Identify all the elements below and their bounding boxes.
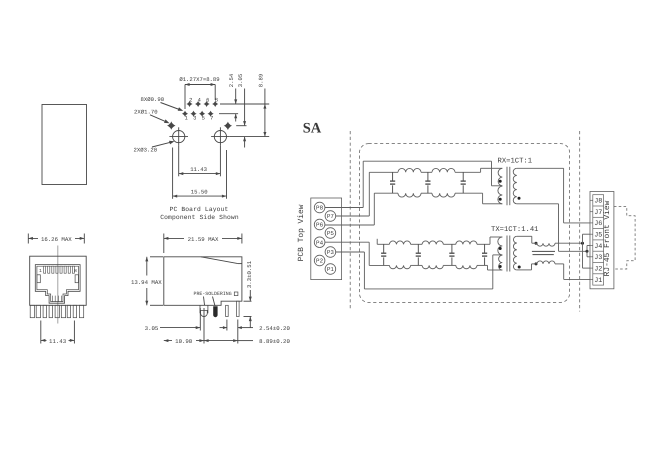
latch window left [37,275,40,283]
svg-text:2.54: 2.54 [228,73,235,87]
TX choke bottom rail [369,264,389,266]
capacitor C3 [462,172,464,181]
svg-text:P2: P2 [316,258,324,265]
choke L3 winding B [389,265,410,268]
RJ-45 pin box [590,192,614,289]
pad hole 2 (0.90mm) [186,101,192,107]
extension line mid hole [236,125,246,127]
svg-text:P1: P1 [327,266,335,273]
svg-text:Component Side Shown: Component Side Shown [160,214,239,221]
svg-text:3.3±0.51: 3.3±0.51 [246,260,253,288]
PCB top view pin box [311,198,342,280]
svg-text:2XØ1.70: 2XØ1.70 [134,108,158,115]
wire T2 secondary top through choke L6 to junction J5/J2 [517,235,532,237]
dashed boundary line left [349,131,351,310]
dim 15.50 [172,148,174,199]
svg-text:8XØ0.90: 8XØ0.90 [141,96,165,103]
pin P3 [325,247,336,258]
svg-text:7: 7 [210,116,213,122]
RX choke bottom rail [374,192,398,194]
svg-text:6: 6 [206,98,209,104]
dim 16.26 MAX [27,234,29,244]
blank outline rectangle (top-left view) [42,105,87,185]
capacitor C7 [484,244,486,253]
socket opening inner [37,266,79,301]
svg-text:J1: J1 [594,277,602,285]
plastic peg [200,305,208,316]
T1 core [506,167,508,205]
svg-text:Ø1.27X7=8.89: Ø1.27X7=8.89 [179,76,219,83]
latch window right [75,275,78,283]
svg-text:3: 3 [193,116,196,122]
svg-text:P6: P6 [316,222,324,229]
extension line top pad row [220,103,269,105]
choke L6 [537,243,555,246]
svg-text:4: 4 [198,98,201,104]
capacitor C6 [451,244,453,253]
dim 10.90 [203,308,205,344]
choke L3 winding A [389,241,410,244]
capacitor C8 plates [532,250,555,252]
contact pin 1 [226,305,229,316]
svg-text:J2: J2 [594,265,602,273]
svg-text:J6: J6 [594,220,602,228]
dashed module outline (rounded) [360,144,570,303]
choke L4 winding B [422,265,443,268]
svg-text:PRE-SOLDERING: PRE-SOLDERING [194,291,232,297]
capacitor C4 [383,244,385,253]
T2 primary phase dot bottom [499,265,502,268]
transformer T2 TX secondary [513,236,516,270]
choke L7 [537,261,555,264]
mounting hole left (3.20mm) [173,131,185,143]
svg-text:PCB Top View: PCB Top View [297,204,306,261]
svg-text:P4: P4 [316,239,324,246]
pin P5 [325,228,336,239]
RX choke top rail [369,171,398,173]
svg-text:13.94 MAX: 13.94 MAX [131,279,162,286]
junction node J4/J3 [586,250,589,253]
dim 11.43 [178,146,180,176]
svg-text:P7: P7 [327,213,335,220]
wire T1 secondary bottom to J4/J3 junction [517,203,559,205]
front view centerline [57,246,59,324]
svg-text:8.89: 8.89 [257,74,264,87]
svg-text:RX=1CT:1: RX=1CT:1 [498,157,533,165]
small pin square [234,292,238,296]
pin P1 [325,264,336,275]
svg-text:P8: P8 [316,205,324,212]
wire P7 to RX choke top rail [336,215,370,217]
svg-text:J3: J3 [594,254,602,262]
pin P7 [325,211,336,222]
dim 21.59 MAX [163,234,165,254]
svg-text:PC Board Layout: PC Board Layout [170,206,229,213]
pad hole 5 (0.90mm) [199,111,205,117]
dim 3.3 +/-0.51 [244,300,252,302]
pin P8 [314,202,325,213]
svg-text:21.59 MAX: 21.59 MAX [188,236,219,243]
choke L2 winding B [432,193,455,197]
svg-text:8.89±0.20: 8.89±0.20 [259,338,290,345]
wire T2 secondary bottom through choke L7 to J1 [517,269,532,271]
T2 primary phase dot top [499,247,502,250]
svg-text:5: 5 [202,116,205,122]
capacitor C1 [392,172,394,181]
pin P4 [314,237,325,248]
svg-text:1: 1 [39,269,42,274]
transformer T1 RX secondary [513,168,517,204]
top chamfer line [201,257,238,264]
extension line big hole [230,136,270,138]
transformer T1 RX primary [498,168,502,186]
mounting hole left (1.70mm) [167,121,175,129]
contact pin 2 [237,301,240,316]
dim 3.05 [199,308,201,331]
svg-text:2.54±0.20: 2.54±0.20 [259,325,290,332]
svg-text:3.05: 3.05 [237,74,244,87]
capacitor C5 [417,244,419,253]
front view body [30,256,86,305]
choke L4 winding A [422,241,443,244]
choke L2 winding A [432,168,455,172]
T2 secondary phase dot [518,266,521,269]
svg-text:J4: J4 [594,243,602,251]
transformer T2 TX primary [498,237,502,255]
svg-text:P3: P3 [327,249,335,256]
pad hole 8 (0.90mm) [212,101,218,107]
svg-text:10.90: 10.90 [175,338,193,345]
svg-text:TX=1CT:1.41: TX=1CT:1.41 [491,226,538,234]
pad hole 1 (0.90mm) [182,111,188,117]
dim 8.89 +/-0.20 [204,340,238,342]
wire T1 secondary top to J6 [517,167,564,169]
svg-text:J7: J7 [594,209,602,217]
extension line bottom pad row [219,113,238,115]
T1 secondary phase dot [518,197,521,200]
choke L1 winding B [398,193,421,197]
dim 11.43 (front) [40,321,42,344]
T1 primary phase dot bottom [499,198,502,201]
mounting hole right (3.20mm) [214,131,226,143]
socket opening outer [35,265,80,304]
wire P6 to RX choke bottom rail [325,224,374,226]
latch slot detail [51,296,53,302]
pad hole 3 (0.90mm) [190,111,196,117]
RJ-45 front profile (dashed) [614,207,635,269]
pin P2 [314,255,325,266]
svg-text:J5: J5 [594,232,602,240]
svg-text:2XØ3.20: 2XØ3.20 [134,146,158,153]
TX choke top rail with terminal hook [376,239,378,245]
svg-text:8: 8 [74,268,77,274]
pad hole 6 (0.90mm) [204,101,210,107]
T1 primary phase dot top [499,180,502,183]
pre-soldering pin (filled) [213,306,217,317]
svg-text:2: 2 [189,98,192,104]
svg-text:P5: P5 [327,230,335,237]
dashed boundary line right [579,131,581,312]
choke L1 winding A [398,168,421,172]
dim 13.94 MAX [150,256,163,258]
front view legs [30,305,34,317]
svg-text:1: 1 [185,116,188,122]
choke L5 winding A [456,241,477,244]
junction node J5/J2 [581,242,584,245]
side view body [164,257,242,306]
svg-text:11.43: 11.43 [49,338,67,345]
contact comb [44,266,46,273]
wire P8 to RX transformer center tap [325,207,363,209]
pad hole 4 (0.90mm) [195,101,201,107]
svg-text:RJ-45 Front View: RJ-45 Front View [603,200,612,276]
svg-text:SA: SA [303,120,322,136]
mounting hole right (1.70mm) [224,122,232,130]
wire P4 to TX choke bottom rail [325,241,369,243]
svg-text:11.43: 11.43 [190,166,207,173]
wire P3 to TX transformer center tap [336,251,365,253]
svg-text:J8: J8 [594,198,602,206]
pin P6 [314,219,325,230]
svg-text:15.50: 15.50 [191,189,208,196]
dim 2.54 +/-0.20 [226,320,228,331]
choke L5 winding B [456,265,477,268]
T2 core [506,236,508,272]
pad hole 7 (0.90mm) [208,111,214,117]
capacitor C2 [427,172,429,181]
svg-text:3.05: 3.05 [145,325,159,332]
svg-text:16.26 MAX: 16.26 MAX [41,236,72,243]
J pin cells [593,195,604,285]
